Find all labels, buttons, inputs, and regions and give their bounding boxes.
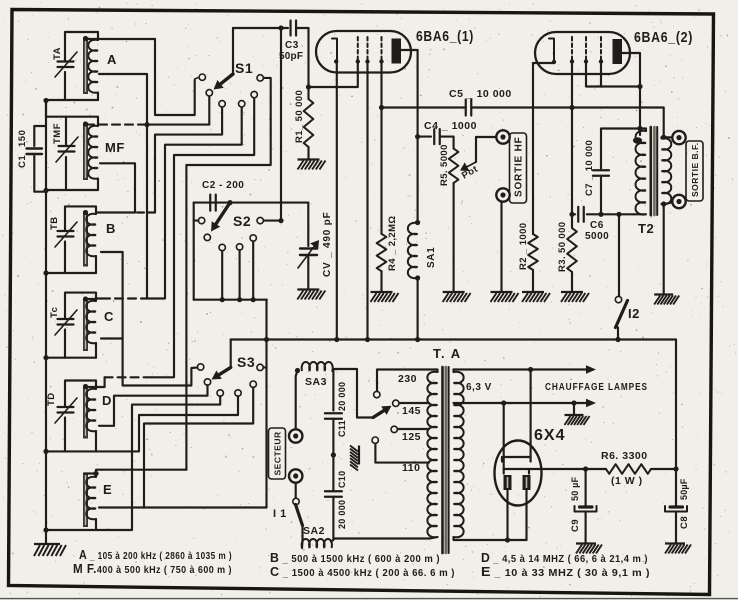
S3 contact E (250, 381, 256, 387)
junction S2 right (278, 218, 283, 223)
6X4 anode bar 1 (502, 457, 531, 462)
transformer A box (65, 32, 98, 62)
potentiometer R5 5000 (449, 149, 459, 184)
svg-text:C6: C6 (590, 220, 604, 231)
svg-text:S3: S3 (237, 354, 255, 370)
capacitor C4 1000 (418, 136, 431, 138)
wire C3-left to S2 right contact (263, 28, 281, 221)
svg-text:5000: 5000 (585, 231, 609, 242)
wire filament left down (506, 490, 508, 540)
tube2 anode plate (613, 39, 623, 64)
coil C core-top junction (83, 296, 88, 301)
trimmer TB (58, 230, 74, 232)
wire filament right down (525, 490, 527, 540)
svg-text:C11: C11 (337, 420, 347, 437)
junction S2 pivot (227, 200, 232, 205)
coil B core (83, 213, 88, 267)
wire wiper to HF terminal (476, 137, 496, 162)
svg-text:S2: S2 (233, 213, 251, 229)
wire B bottom line (46, 272, 96, 274)
S2 left contact (198, 217, 204, 223)
capacitor C3 (289, 21, 291, 36)
capacitor C1 (27, 147, 43, 149)
wire T2 secondary bottom ground (663, 204, 665, 294)
wire S3 contact C to E bottom (96, 396, 220, 530)
wire D bottom line (46, 450, 96, 452)
wire filament return (454, 537, 527, 540)
terminal SORTIE BF - (672, 195, 685, 208)
transformer B box (65, 206, 96, 231)
coil D core-top junction (83, 384, 88, 389)
resistor R1 50000 (304, 99, 314, 147)
wire S3 contact A to C lower tap (123, 252, 198, 386)
svg-text:145: 145 (402, 405, 421, 417)
S3 contact F (257, 364, 263, 370)
resistor R4 2.2M (380, 108, 382, 234)
coil A core-top junction (83, 36, 88, 41)
coil E winding (86, 477, 96, 520)
wire C3 to R1 (296, 28, 309, 99)
wire heater lower tap arrow (454, 402, 590, 404)
transformer TA core (441, 367, 444, 553)
wire C3 tank line (233, 27, 288, 29)
wire I2 to bus (617, 328, 619, 340)
ground R5 (443, 292, 471, 302)
capacitor C2 (209, 195, 211, 211)
wire SECTEUR bottom to I1 (295, 483, 297, 498)
wire S3 contact D down (96, 396, 238, 451)
wire R1 to tube1 grid (309, 86, 358, 88)
wire S1 pivot (232, 28, 234, 74)
wire tube1 grid1 pin (357, 60, 359, 87)
svg-text:I2: I2 (628, 306, 640, 321)
wire B lower tap (101, 251, 123, 253)
svg-text:R6. 3300: R6. 3300 (601, 450, 648, 462)
wire C-top dashed (102, 297, 147, 299)
wire C-top to S1 contact 4 (147, 107, 242, 299)
tube1 grid 1 dashed (357, 37, 359, 60)
terminal SORTIE HF - (496, 188, 509, 201)
capacitor C7 10000 top lead (601, 129, 640, 169)
wire B-top to S1 contact 3 (155, 107, 222, 213)
wire tap 110 (375, 443, 429, 462)
svg-text:C5 _ 10 000: C5 _ 10 000 (449, 88, 512, 100)
wire C6 to T2 primary bottom (601, 213, 634, 215)
terminal SECTEUR top (289, 429, 302, 442)
S2 bottom contact a (219, 244, 225, 250)
wire E lower tap to bus column (144, 506, 267, 508)
coil MF core-top junction (83, 121, 88, 126)
ground R2 (522, 292, 550, 302)
svg-text:C9: C9 (570, 519, 581, 532)
svg-text:E: E (103, 482, 112, 497)
wire A bottom line (46, 99, 98, 101)
wire SA1 to bus (417, 278, 419, 340)
svg-text:Tc: Tc (49, 307, 60, 318)
wire CV top lead (307, 203, 309, 246)
junction R6 right / C8 (673, 466, 678, 471)
svg-text:SA2: SA2 (303, 525, 325, 537)
capacitor C7 10000 (593, 169, 609, 171)
S1 contact 3 (219, 101, 225, 107)
transformer T2 primary (636, 131, 647, 215)
tube 6BA6 (2) envelope (535, 32, 630, 74)
S2 right contact (257, 217, 263, 223)
wire tube2 screen grids tie (586, 61, 640, 87)
S2 bottom contact c (250, 235, 256, 241)
6X4 filament right (523, 475, 531, 490)
ground T2 secondary (654, 295, 679, 305)
S3 moving contact (204, 379, 210, 385)
svg-text:C1: C1 (17, 155, 28, 168)
S2 box bottom line (194, 299, 267, 301)
label SECTEUR (269, 428, 286, 479)
wire SA3 right to column (332, 369, 333, 411)
resistor R2 1000 (528, 234, 538, 270)
wire S2 left contact (194, 220, 199, 222)
main bus horizontal (231, 340, 676, 467)
svg-text:T2: T2 (638, 221, 654, 236)
coil D winding (86, 389, 96, 432)
trimmer TD (58, 406, 74, 408)
tube1 grid 3 dashed (381, 37, 383, 60)
S1 contact 6 (257, 75, 263, 81)
transformer T2 core (649, 127, 652, 215)
wire tap 145 (399, 402, 429, 404)
S1 contact 1 (199, 74, 205, 80)
svg-text:C3: C3 (285, 40, 299, 51)
coil C core (83, 299, 88, 351)
coil MF core (83, 123, 88, 180)
junction E tap on bus (264, 337, 269, 342)
svg-text:TD: TD (46, 392, 57, 406)
svg-text:R5. 5000: R5. 5000 (439, 144, 450, 186)
S2 bottom contact b (236, 244, 242, 250)
junction T2 secondary top (661, 135, 666, 140)
label SORTIE HF (510, 133, 527, 203)
junction C7/C6 (598, 212, 603, 217)
svg-text:SA1: SA1 (426, 247, 437, 268)
junction R6 left / C9 (583, 466, 588, 471)
wire tube2 anode (622, 53, 640, 135)
wire C-top stub (86, 297, 102, 300)
wire A top tap (87, 38, 155, 40)
svg-text:C4 _ 1000: C4 _ 1000 (424, 120, 477, 132)
terminal SECTEUR bottom (289, 469, 302, 482)
wire 6X4 plate supply 1 (530, 370, 532, 458)
svg-text:B: B (106, 221, 116, 236)
svg-text:50µF: 50µF (679, 478, 689, 500)
junction heater top (528, 367, 533, 372)
transformer C box (65, 293, 96, 319)
I1 fixed contact (293, 498, 299, 504)
contact 110 (372, 437, 378, 443)
wire to BF- terminal (664, 203, 673, 205)
trimmer TMF (59, 145, 75, 147)
svg-text:TB: TB (49, 216, 60, 230)
contact 145 (393, 400, 399, 406)
mains selector arm (373, 411, 384, 418)
wire D-top jog (86, 377, 105, 387)
transformer TA primary winding (427, 372, 437, 538)
junction heater lower (501, 400, 506, 405)
capacitor C5 10000 (465, 100, 467, 116)
wire tube1 grid2 pin to bus (366, 60, 368, 340)
ground CV (297, 290, 325, 300)
wire SA3 left lead (296, 371, 298, 430)
S3 contact A (197, 364, 203, 370)
wire heater center tap ground (573, 403, 575, 414)
variable capacitor CV 490pF (300, 247, 317, 249)
wire C1 bottom (34, 156, 46, 192)
wire S2-bottom to S3 contact F and E tap (265, 300, 267, 508)
wire selector to SA3 node (333, 369, 373, 418)
tube1 grid 2 dashed (367, 37, 369, 60)
S1 moving contact (206, 90, 212, 96)
svg-text:50 µF: 50 µF (570, 477, 580, 501)
ground R1 (298, 160, 326, 170)
junction anode/C4 (415, 134, 420, 139)
wire 6.3V top tap arrow (452, 370, 454, 373)
svg-text:20 000: 20 000 (337, 382, 347, 411)
wire C bottom line (46, 357, 96, 359)
label SORTIE BF (686, 141, 703, 201)
wire TA primary top tap 230 (377, 370, 438, 392)
S1 contact 4 (239, 101, 245, 107)
switch I1 arm (296, 505, 303, 526)
switch I2 arm (616, 301, 628, 328)
wire HF terminal ground (500, 202, 502, 291)
switch S2 arm (216, 203, 230, 224)
svg-text:R4 _ 2,2MΩ: R4 _ 2,2MΩ (387, 216, 398, 271)
switch S3 arm (219, 367, 231, 374)
svg-text:6,3 V: 6,3 V (466, 382, 492, 393)
svg-text:D: D (102, 393, 112, 408)
wire C5 line (382, 106, 466, 108)
junction I2 branch (616, 212, 621, 217)
contact 230 (374, 391, 380, 397)
wire E lower tap (99, 506, 144, 508)
ground main (34, 544, 66, 556)
wire tube1 grid3 pin (380, 60, 382, 108)
coil B core-top junction (83, 210, 88, 215)
svg-text:CV _ 490 pF: CV _ 490 pF (322, 212, 333, 278)
transformer T2 secondary (662, 137, 664, 138)
wire CV bottom lead (307, 257, 309, 289)
resistor R3 50000 (571, 214, 573, 228)
tube2 cathode (549, 39, 554, 63)
coil E core (83, 473, 88, 527)
S3 contact D (235, 390, 241, 396)
junction A-lower / MF-top (144, 122, 149, 127)
wire tube1 anode (401, 50, 418, 222)
svg-text:50pF: 50pF (279, 51, 303, 62)
tube1 cathode (332, 39, 337, 62)
S3 contact C (217, 390, 223, 396)
S1 contact 5 (251, 91, 257, 97)
coil D core (83, 387, 88, 439)
svg-text:I 1: I 1 (273, 508, 287, 520)
wire tap 125 (397, 428, 429, 430)
wire E bottom line (46, 519, 96, 530)
svg-text:C2 - 200: C2 - 200 (202, 180, 244, 191)
coil C winding (86, 301, 96, 344)
trimmer TA (58, 60, 74, 62)
coil A core (83, 38, 88, 94)
wire B-top tap (96, 211, 135, 213)
S2 box top line (194, 202, 309, 204)
capacitor C11 (325, 412, 342, 414)
wire S3 contact E to E lower tap (144, 387, 253, 507)
ground C9 (576, 544, 602, 554)
svg-text:6BA6_(1): 6BA6_(1) (416, 29, 474, 45)
ground heater (565, 415, 590, 425)
svg-text:TA: TA (52, 47, 63, 60)
junction grid1 C5 line (569, 105, 574, 110)
page scan edge bottom (0, 598, 738, 600)
tube2 grid1 dashed (571, 37, 573, 61)
svg-text:SECTEUR: SECTEUR (273, 431, 283, 475)
wire I1 to SA2 (301, 526, 304, 549)
wire S3 pivot drop (230, 340, 232, 368)
ground SORTIE HF (491, 292, 519, 302)
coil MF winding (88, 126, 98, 179)
wire C7 bottom (600, 178, 602, 215)
junction T2 primary top / C7 (637, 126, 642, 131)
wire tube1 cathode down to bus (336, 62, 338, 340)
svg-text:230: 230 (398, 373, 417, 385)
svg-text:MF: MF (105, 140, 125, 155)
wire D-top dashed (105, 376, 152, 378)
tube2 grid2 dashed (585, 37, 587, 61)
ground bus wire (45, 100, 47, 544)
svg-text:S1: S1 (235, 60, 253, 76)
svg-text:6BA6_(2): 6BA6_(2) (634, 30, 693, 46)
junction R1 top (306, 84, 311, 89)
ground C8 (665, 544, 691, 554)
junction C3 left (278, 25, 283, 30)
wire B-top dash link (137, 211, 155, 213)
wire C11 to junction (332, 419, 334, 455)
ground R3 (561, 292, 589, 302)
junction T2 secondary bottom (661, 201, 666, 206)
choke SA1 (415, 220, 420, 225)
svg-text:TMF: TMF (52, 123, 63, 144)
S2 box left side (193, 203, 195, 300)
wire C4 to R5 (440, 137, 454, 149)
svg-text:6X4: 6X4 (534, 427, 565, 444)
wire C1 top (34, 126, 46, 146)
transformer D box (65, 381, 96, 408)
wire MF top tap dashed (86, 124, 147, 126)
wire E-top link (96, 470, 186, 474)
junction screens to anode line (637, 84, 642, 89)
tube2 grid3 dashed (600, 37, 602, 61)
wire A-lower vertical (99, 74, 147, 299)
wire S1 top-right contact down-left-down (186, 78, 270, 470)
junction heater ground tap (571, 400, 576, 405)
tube 6X4 envelope (495, 441, 542, 506)
wire D lower tap (99, 425, 114, 427)
svg-text:CHAUFFAGE LAMPES: CHAUFFAGE LAMPES (545, 382, 648, 393)
wire to BF+ terminal (664, 136, 673, 138)
ground R4 (371, 292, 399, 302)
tube 6BA6 (1) envelope (316, 31, 411, 73)
wire MF-top to S1 arm contact (147, 96, 209, 125)
coil E top lead (84, 474, 96, 478)
transformer MF box (46, 101, 98, 127)
wire I2 top (618, 214, 620, 296)
wire MF lower tap (100, 163, 135, 212)
capacitor C10 (325, 490, 342, 492)
junction column center (331, 452, 336, 457)
wire A-top to S1 contact 1 (155, 39, 195, 115)
svg-text:R2 _ 1000: R2 _ 1000 (518, 223, 529, 270)
choke SA3 (302, 362, 333, 371)
svg-text:110: 110 (402, 462, 420, 474)
coil B winding (86, 214, 96, 257)
6X4 filament left (504, 475, 512, 490)
svg-text:150: 150 (17, 130, 28, 147)
svg-text:A: A (107, 52, 117, 67)
I2 fixed contact (615, 296, 621, 302)
svg-text:SORTIE HF: SORTIE HF (514, 136, 525, 197)
svg-text:125: 125 (402, 431, 421, 443)
resistor R6 3300 (606, 464, 651, 474)
wire C lower tap (101, 337, 123, 339)
svg-text:20 000: 20 000 (337, 500, 347, 529)
svg-text:SA3: SA3 (305, 376, 327, 388)
wire D-top to S1 contact 5 (152, 98, 254, 377)
svg-text:C: C (104, 309, 114, 324)
pot wiper arrow (467, 162, 476, 167)
wire tube2 grid1 down (571, 61, 573, 214)
coil A winding (88, 40, 98, 93)
junction grid3 C5 line (379, 105, 384, 110)
contact 125 (391, 426, 397, 432)
wire S3 moving contact to D lower tap (114, 385, 208, 426)
svg-text:(1 W ): (1 W ) (611, 475, 643, 487)
ground column (chassis) (350, 446, 359, 471)
wire tube2 cathode to R2 (533, 62, 554, 234)
svg-text:SORTIE B.F.: SORTIE B.F. (690, 142, 700, 197)
S2 arm target contact (204, 234, 210, 240)
svg-text:C10: C10 (337, 471, 347, 488)
wire tube2 grid3 pin (600, 61, 602, 87)
capacitor C6 5000 (572, 213, 575, 215)
transformer TA secondary winding (454, 372, 464, 538)
capacitor C9 50uF (585, 469, 587, 506)
svg-text:R1_ 50 000: R1_ 50 000 (294, 90, 305, 143)
wire column bottom to TA primary (333, 537, 437, 539)
svg-text:C8: C8 (679, 516, 690, 529)
trimmer TC (58, 318, 74, 320)
6X4 anode bar 2 (504, 469, 529, 474)
wire C10 to SA2 (331, 497, 333, 542)
junction grid1 R3 C6 (569, 212, 574, 217)
wire MF bottom line (46, 189, 98, 191)
wire 6X4 cathode to R6 (529, 468, 586, 470)
svg-text:C7 _ 10 000: C7 _ 10 000 (584, 140, 595, 196)
svg-text:R3. 50 000: R3. 50 000 (557, 222, 568, 272)
choke SA2 (302, 539, 332, 548)
wire 6X4 plate supply 2 (503, 403, 505, 469)
svg-text:T. A: T. A (433, 346, 462, 361)
capacitor C8 50uF (675, 469, 677, 506)
switch S1 arm (221, 74, 233, 84)
trimmer TMF branch (65, 117, 67, 146)
terminal SORTIE HF + (496, 130, 509, 143)
